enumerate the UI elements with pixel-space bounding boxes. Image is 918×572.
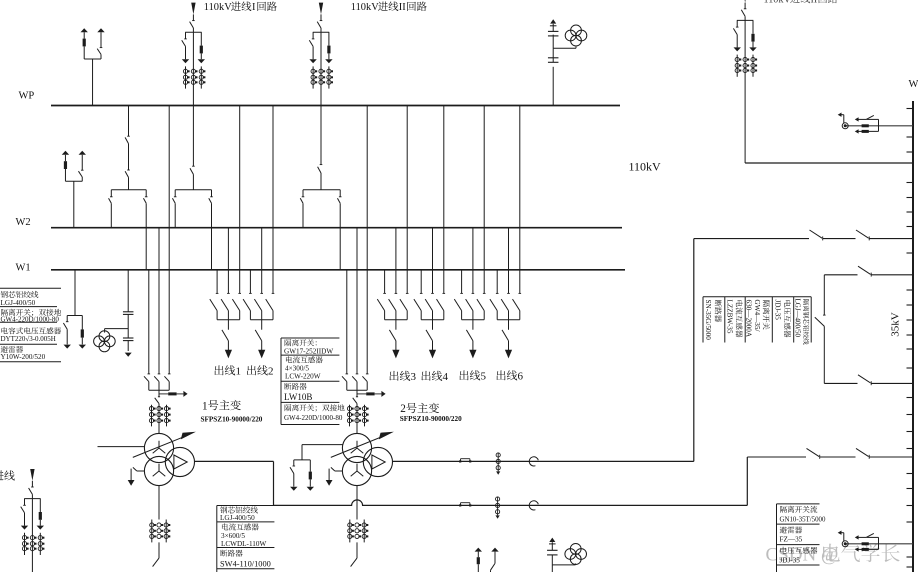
feeder 出线6: feeder disconnector <box>508 320 510 330</box>
svg-text:SFPSZ10-90000/220: SFPSZ10-90000/220 <box>201 415 263 423</box>
svg-text:GN10-35T/5000: GN10-35T/5000 <box>780 517 826 524</box>
T2 tap lead earthing switch branch <box>293 460 295 466</box>
feeder 出线5: selector disconnector blades <box>454 299 461 311</box>
transformer T1 bay: stub from bus W2 <box>158 228 160 374</box>
svg-text:110kV: 110kV <box>629 160 662 174</box>
incoming II selector: selector bar <box>303 189 340 191</box>
transformer T1 bay: neutral earthing switch <box>137 470 145 472</box>
feeder 出线1: stub from bus W1 <box>216 270 218 294</box>
feeder 出线5: stub from bus WP <box>483 106 485 294</box>
lower 10kV feeder line (from T1) <box>274 500 748 506</box>
transformer T2 bay: neutral conductor <box>356 486 358 520</box>
CVT below W1: riser <box>127 270 129 312</box>
svg-text:LGJ-400/50: LGJ-400/50 <box>220 514 255 522</box>
feeder 出线4: feeder line with arrow <box>432 341 434 351</box>
feeder 出线2: stub from bus WP <box>272 106 274 294</box>
35kV tie vertical with disconnector <box>823 275 825 315</box>
10kV CVT: riser from bottom <box>551 565 553 572</box>
transformer T2 bay: transformer disconnector <box>356 390 358 396</box>
feeder 出线2: label 出线2 <box>247 365 256 375</box>
upper 10kV line wall bushing <box>529 457 538 466</box>
incoming I selector: disconnector to bus W2 <box>174 190 176 197</box>
110kV incoming line II bay: branch tee bar <box>313 31 329 33</box>
svg-text:WP: WP <box>19 91 35 102</box>
feeder 出线4: feeder disconnector <box>432 320 434 330</box>
svg-text:2: 2 <box>268 366 274 378</box>
svg-text:SFPSZ10-90000/220: SFPSZ10-90000/220 <box>400 415 462 423</box>
svg-text:5: 5 <box>481 371 487 383</box>
incoming bay I: disconnector above selector <box>192 165 195 167</box>
feeder 出线1: feeder disconnector <box>227 320 229 330</box>
feeder 出线6: feeder line with arrow <box>508 341 510 351</box>
svg-text:630—2000A: 630—2000A <box>744 300 752 338</box>
upper 10kV feeder line (from T2) <box>393 460 694 462</box>
svg-text:W2: W2 <box>16 217 31 228</box>
middle info table text <box>285 339 292 346</box>
bus WP voltage transformer bay: earthing switch branch <box>97 28 104 32</box>
feeder 出线4: stub from bus W1 <box>420 270 422 294</box>
lower 10kV riser and 35kV tie line 4 <box>746 457 748 505</box>
svg-text:W3: W3 <box>909 79 918 90</box>
incoming I selector: disconnector to bus W1 <box>211 190 213 197</box>
svg-text:II: II <box>399 2 406 13</box>
bus WP CVT: four-winding voltage transformer <box>571 25 582 36</box>
35kV bus PT bay (upper): feeder line from 35kV bus <box>845 125 913 127</box>
110kV incoming line I bay: surge arrester branch <box>200 32 202 45</box>
svg-text:LW10B: LW10B <box>284 392 312 402</box>
transformer T2 bay: stub from bus WP <box>366 106 368 374</box>
feeder 出线6: stub from bus W1 <box>496 270 498 294</box>
rotated table text col2 电流互感器 LZZBW-35 <box>736 300 743 337</box>
110kV incoming line I bay: incoming line arrow <box>191 3 195 15</box>
bus WP voltage transformer bay: tee bar and riser <box>84 58 101 60</box>
rotated 35kV equipment table <box>703 296 811 298</box>
svg-text:Y10W-200/520: Y10W-200/520 <box>1 353 46 361</box>
feeder 出线2: feeder disconnector <box>261 320 263 330</box>
incoming line III bay: main conductor <box>744 16 746 163</box>
svg-text:GW4—35/: GW4—35/ <box>753 300 761 332</box>
left info table text <box>1 291 8 298</box>
lower 10kV line link switch <box>460 503 462 506</box>
feeder 出线4: label 出线4 <box>421 371 430 381</box>
svg-text:SW4-110/1000: SW4-110/1000 <box>220 559 271 568</box>
transformer T2 bay: MV winding (wye) circle <box>342 456 371 485</box>
35kV incoming 进线 bay: disconnector QS <box>31 481 33 487</box>
incoming bay II: disconnector above selector <box>320 164 323 166</box>
feeder 出线3: feeder line with arrow <box>395 341 397 351</box>
35kV bus PT bay (lower): feeder line from 35kV bus <box>845 543 913 545</box>
incoming II selector: disconnector to bus W1 <box>339 190 341 197</box>
feeder 出线6: label 出线6 <box>496 370 505 380</box>
transformer T1 bay: neutral conductor <box>158 486 160 520</box>
svg-text:DYT220√3-0.005H: DYT220√3-0.005H <box>1 335 56 343</box>
bus W1 <box>51 269 625 271</box>
CVT below W1: PT tap connection <box>105 328 129 330</box>
10kV earthing switch branch with up arrow <box>491 548 498 552</box>
svg-text:FZ—35: FZ—35 <box>780 536 803 544</box>
lower 10kV line CT stack <box>497 497 499 514</box>
rotated table text col1 断路器 SN-35G/5000 <box>715 300 722 322</box>
35kV bus PT bay (lower): earthing switch branch <box>866 536 878 538</box>
feeder 出线5: stub from bus W1 <box>461 270 463 294</box>
110kV incoming line II bay: earthing switch branch <box>312 32 314 39</box>
transformer T1 bay: transformer disconnector <box>158 390 160 396</box>
feeder 出线1: stub from bus W2 <box>227 228 229 294</box>
bus coupler bay: disconnector 2 <box>127 169 130 171</box>
feeder 出线2: stub from bus W2 <box>261 228 263 294</box>
35kV incoming 进线 bay: earthing switch branch <box>24 499 26 506</box>
incoming line III bay: current transformers 3x3 <box>736 55 738 77</box>
bottom info table <box>216 506 218 572</box>
feeder 出线5: feeder disconnector <box>472 320 474 330</box>
feeder 出线4: stub from bus WP <box>443 106 445 294</box>
transformer T1 tap lead (left) <box>98 446 145 448</box>
feeder 出线6: stub from bus WP <box>519 106 521 294</box>
transformer T2 bay: neutral surge arrester with arrow <box>357 393 366 395</box>
svg-text:4: 4 <box>443 371 449 383</box>
110kV incoming line I bay: branch tee bar <box>185 31 201 33</box>
transformer T2 bay: neutral earthing switch <box>335 470 343 472</box>
feeder 出线5: stub from bus W2 <box>472 228 474 294</box>
feeder 出线3: stub from bus W1 <box>384 270 386 294</box>
svg-text:2: 2 <box>400 403 406 415</box>
transformer T1 bay: collector bar <box>149 389 169 391</box>
transformer T2 bay: neutral current transformers <box>349 520 351 543</box>
transformer T1 bay: neutral current transformers <box>151 520 153 543</box>
lower 10kV line wall bushing <box>529 501 538 510</box>
10kV arrester branch with up arrow <box>475 548 482 552</box>
10kV CVT: PT tap connection <box>552 564 575 566</box>
feeder 出线1: collector bar <box>217 319 240 321</box>
transformer T2 tap lead with arrester pair <box>302 444 343 446</box>
110kV incoming line I bay: disconnector QS <box>192 14 194 20</box>
svg-text:GW4-220D/1000-80: GW4-220D/1000-80 <box>1 315 60 323</box>
35kV bus PT bay (lower): earthing arm with arrow <box>843 533 845 541</box>
35kV bus PT bay (lower): branch bracket <box>878 537 880 549</box>
10kV CVT: capacitor <box>551 555 553 565</box>
bottom info table text <box>220 506 227 513</box>
feeder 出线4: selector disconnector blades <box>414 299 421 311</box>
svg-text:LCW-220W: LCW-220W <box>285 372 321 380</box>
feeder 出线2: stub from bus W1 <box>249 270 251 294</box>
bus coupler bay: disconnector 1 <box>127 135 130 137</box>
35kV incoming 进线 bay: surge arrester branch <box>39 499 41 512</box>
svg-text:6: 6 <box>518 371 524 383</box>
svg-text:1: 1 <box>202 400 208 412</box>
bottom-right info table <box>776 504 778 572</box>
svg-text:35kV: 35kV <box>890 312 902 337</box>
T2 tap lead surge arrester branch <box>309 460 311 472</box>
110kV incoming line II bay: incoming line arrow <box>319 3 323 15</box>
T1 LV lead to vertical riser <box>195 460 274 462</box>
feeder 出线5: collector bar <box>462 319 485 321</box>
bus W2 <box>51 227 622 229</box>
35kV bus PT bay (upper): earthing arm with arrow <box>843 115 845 123</box>
rotated table text col4 电压互感器 JDJ-35 <box>784 300 791 337</box>
feeder 出线3: selector disconnector blades <box>377 299 384 311</box>
incoming I selector: selector bar <box>175 189 211 191</box>
bus WP CVT: capacitor 2 <box>548 57 559 59</box>
middle info table <box>280 338 282 425</box>
transformer T1 bay: LV winding (delta) circle <box>165 447 194 476</box>
svg-text:110kV: 110kV <box>351 2 379 13</box>
35kV incoming 进线 bay: branch tee bar <box>24 498 40 500</box>
bus coupler selector: selector bar <box>111 189 146 191</box>
bus W2 voltage transformer bay: tee bar and riser <box>65 180 82 182</box>
transformer T1 bay: on-load tap-changer arrow <box>133 435 188 457</box>
rotated table text col5 隔离钢芯铝绞线 LGJ-400/50 <box>803 299 809 344</box>
incoming bay III tie line to 35kV bus <box>745 162 913 164</box>
incoming line III bay: surge arrester branch <box>752 20 754 33</box>
transformer T2 bay: stub from bus W1 <box>346 270 348 374</box>
rotated table text col3 隔离开关 GW4-35/630-2000A <box>763 300 770 329</box>
transformer T1 bay: neutral disconnector blade <box>158 542 160 558</box>
35kV incoming 进线 bay: current transformers 3x3 <box>24 533 26 555</box>
feeder 出线1: feeder line with arrow <box>227 341 229 351</box>
feeder 出线4: stub from bus W2 <box>432 228 434 294</box>
35kV tie line 2 with disconnector <box>824 274 857 276</box>
svg-text:3: 3 <box>411 371 417 383</box>
svg-text:LGJ-400/50: LGJ-400/50 <box>1 299 36 307</box>
bus 35kV vertical <box>912 101 914 572</box>
bus W1 bay earthing switch branch <box>66 316 68 322</box>
35kV label (rotated) <box>890 312 902 337</box>
transformer T2 bay: collector bar <box>347 389 367 391</box>
transformer T1 bay: MV winding (wye) circle <box>144 456 173 485</box>
35kV bus PT bay (upper): earthing switch branch <box>866 118 878 120</box>
35kV bus PT bay (lower): fuse <box>862 542 869 545</box>
feeder 出线1: selector disconnector blades <box>210 299 217 311</box>
feeder 出线6: stub from bus W2 <box>508 228 510 294</box>
bus WP <box>51 105 620 107</box>
35kV bus PT bay (upper): branch bracket <box>878 119 880 131</box>
feeder 出线3: stub from bus W2 <box>395 228 397 294</box>
transformer T2 bay: neutral disconnector blade <box>356 542 358 558</box>
10kV CVT: surge arrester top <box>551 542 553 550</box>
transformer T2 bay: selector disconnector blades <box>342 376 347 381</box>
feeder 出线3: label 出线3 <box>389 371 398 381</box>
bus W1 arrester/PT bay tee bar <box>67 315 82 317</box>
bus coupler selector: disconnector to bus W2 <box>110 190 112 197</box>
110kV incoming line II bay: disconnector QS <box>320 14 322 20</box>
transformer T1 bay: neutral surge arrester with arrow <box>159 393 168 395</box>
CVT below W1: four-winding voltage transformer <box>99 331 110 342</box>
transformer T1 bay: stub from bus WP <box>168 106 170 374</box>
svg-text:GW17-252IIDW: GW17-252IIDW <box>284 347 333 355</box>
transformer T2 bay: stub from bus W2 <box>356 228 358 374</box>
svg-text:4×300/5: 4×300/5 <box>285 364 309 372</box>
110kV incoming line II bay: current transformers 3x3 <box>312 66 314 88</box>
svg-text:110kV: 110kV <box>204 2 232 13</box>
110kV incoming line II bay: main conductor <box>320 28 322 106</box>
bus W1 bay surge arrester branch <box>81 316 83 330</box>
svg-text:II: II <box>811 0 818 5</box>
feeder 出线3: stub from bus WP <box>406 106 408 294</box>
feeder 出线3: collector bar <box>385 319 408 321</box>
bus WP CVT: surge arrester top <box>552 24 554 32</box>
transformer T2 bay: HV winding (wye) circle <box>342 433 371 462</box>
svg-text:JDJ-35: JDJ-35 <box>774 300 782 321</box>
bus WP CVT: PT tap connection <box>553 47 576 49</box>
incoming II selector: disconnector to bus W2 <box>302 190 304 197</box>
feeder 出线5: feeder line with arrow <box>472 341 474 351</box>
feeder 出线2: selector disconnector blades <box>243 299 250 311</box>
35kV bus PT bay (upper): surge arrester branch <box>858 130 878 132</box>
feeder 出线4: collector bar <box>421 319 444 321</box>
进线 label (clipped) <box>0 470 4 480</box>
transformer T2 bay: HV current transformers <box>349 405 351 427</box>
110kV incoming line II bay: surge arrester branch <box>328 32 330 45</box>
incoming line III bay: incoming line arrow <box>743 0 747 3</box>
svg-text:I: I <box>252 2 256 13</box>
incoming bay II: riser to selector <box>320 106 322 165</box>
35kV bus PT bay (lower): voltage transformer <box>842 541 848 547</box>
feeder 出线2: feeder line with arrow <box>261 341 263 351</box>
transformer T1 bay: stub from bus W1 <box>148 270 150 374</box>
incoming bay I: riser to selector <box>192 106 194 167</box>
35kV tie line 3 with disconnector <box>824 382 857 384</box>
bus coupler bay: riser from WP <box>128 106 130 137</box>
svg-text:LZZBW-35: LZZBW-35 <box>725 300 733 334</box>
bottom-right info table text <box>780 506 787 513</box>
35kV bus stubs <box>907 108 914 110</box>
left info table <box>0 287 61 289</box>
feeder 出线5: label 出线5 <box>459 370 468 380</box>
110kV incoming line I bay: main conductor <box>192 28 194 106</box>
35kV bus PT bay (upper): fuse <box>862 124 869 127</box>
feeder 出线1: label 出线1 <box>214 365 223 375</box>
incoming line III bay: earthing switch branch <box>736 20 738 27</box>
svg-text:W1: W1 <box>16 263 31 274</box>
110kV incoming line I bay: current transformers 3x3 <box>185 66 187 88</box>
35kV bus PT bay (lower): surge arrester branch <box>858 548 878 550</box>
transformer T1 bay: selector disconnector blades <box>144 376 149 381</box>
svg-text:LGJ—400/50: LGJ—400/50 <box>793 299 801 338</box>
transformer T2 bay: on-load tap-changer arrow <box>331 435 386 457</box>
upper 10kV line link switch <box>460 459 462 462</box>
CVT below W1: earth arrow <box>127 341 129 351</box>
feeder 出线3: feeder disconnector <box>395 320 397 330</box>
feeder 出线6: selector disconnector blades <box>490 299 497 311</box>
bus W2 voltage transformer bay: earthing switch branch <box>79 151 86 155</box>
svg-text:GW4-220D/1000-80: GW4-220D/1000-80 <box>284 414 343 422</box>
upper 10kV line CT stack <box>497 453 499 470</box>
35kV incoming 进线 bay: incoming line arrow <box>30 469 34 481</box>
svg-text:3×600/5: 3×600/5 <box>221 532 245 540</box>
CVT below W1: capacitor 1 <box>123 311 134 313</box>
bus W1 arrester/PT bay riser <box>74 270 76 316</box>
transformer T1 bay: HV current transformers <box>151 405 153 427</box>
bus WP CVT: capacitor 1 <box>552 35 554 49</box>
svg-text:JDJ-35: JDJ-35 <box>780 557 801 565</box>
bus WP voltage transformer bay: surge arrester branch <box>81 28 88 32</box>
bus W2 voltage transformer bay: surge arrester branch <box>62 151 69 155</box>
35kV incoming 进线 bay: main conductor <box>31 494 33 572</box>
bus coupler selector: disconnector to bus W1 <box>145 190 147 197</box>
incoming line III bay: disconnector QS <box>744 3 746 9</box>
110kV incoming line I bay: earthing switch branch <box>185 32 187 39</box>
transformer T1 bay: HV winding (wye) circle <box>144 433 173 462</box>
svg-text:SN-35G/5000: SN-35G/5000 <box>704 300 712 341</box>
feeder 出线2: collector bar <box>250 319 273 321</box>
feeder 出线1: stub from bus WP <box>239 106 241 294</box>
feeder 出线6: collector bar <box>497 319 520 321</box>
35kV bus PT bay (upper): voltage transformer <box>842 123 848 129</box>
svg-text:110kV: 110kV <box>764 0 792 5</box>
svg-text:LCWDL-110W: LCWDL-110W <box>221 540 266 548</box>
upper 10kV riser to 35kV tie <box>693 239 695 462</box>
transformer T2 bay: LV winding (delta) circle <box>363 447 392 476</box>
incoming line III bay: branch tee bar <box>737 19 753 21</box>
10kV CVT: four-winding voltage transformer <box>570 544 581 555</box>
35kV tie line 1 with disconnectors <box>694 238 809 240</box>
bus WP CVT: riser <box>552 67 554 106</box>
svg-text:1: 1 <box>236 366 242 378</box>
CVT below W1: capacitor 2 <box>123 337 134 339</box>
